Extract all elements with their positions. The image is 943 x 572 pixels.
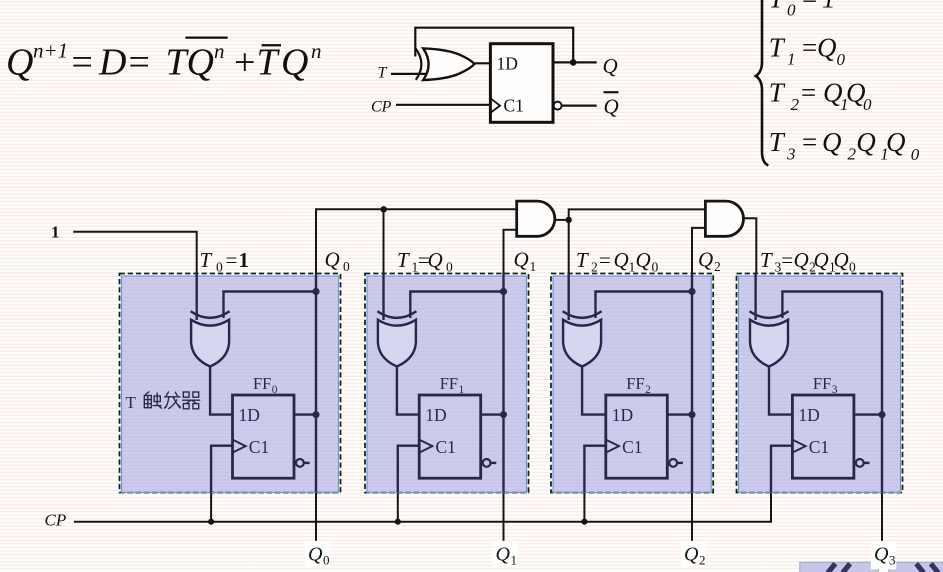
junction Q0 feedback	[312, 288, 319, 295]
wire CP input	[396, 104, 490, 106]
wire feedback Q2 to xor right input	[596, 292, 693, 319]
wire Q output	[553, 61, 597, 63]
svg-text:Q: Q	[636, 248, 651, 272]
svg-text:1D: 1D	[612, 405, 633, 425]
svg-text:D: D	[98, 42, 126, 84]
svg-text:T: T	[200, 248, 213, 272]
svg-text:Q: Q	[325, 248, 340, 272]
svg-text:0: 0	[863, 95, 872, 114]
svg-text:FF: FF	[813, 374, 831, 393]
wire 1 to T0 input	[73, 232, 197, 274]
junction Q2 output	[689, 411, 696, 418]
svg-text:+: +	[232, 42, 258, 84]
svg-text:C1: C1	[436, 437, 456, 457]
svg-text:FF: FF	[440, 374, 458, 393]
flip-flop FF2 rect	[606, 395, 668, 478]
wire Q1 vertical through box	[502, 274, 504, 493]
svg-text:T: T	[760, 248, 773, 272]
svg-text:Q: Q	[856, 127, 876, 157]
svg-text:1D: 1D	[798, 405, 819, 425]
bubble Qbar of FF1	[483, 459, 491, 467]
svg-text:1: 1	[787, 50, 796, 69]
wire Q2 below box to label	[691, 493, 693, 542]
svg-text:Q: Q	[874, 544, 889, 566]
wire Q1 below box to label	[503, 493, 505, 542]
wire T0 input inside box	[195, 274, 197, 321]
xor gate X0	[191, 311, 230, 318]
wire clock into FF0	[211, 446, 232, 493]
wire Qbar stub of FF3	[864, 462, 870, 464]
clock triangle of FF0	[233, 440, 246, 453]
svg-text:Q: Q	[614, 248, 629, 272]
svg-text:0: 0	[837, 50, 846, 69]
flip-flop FF0 rect	[233, 395, 295, 478]
wire FF0 clock drop below box	[210, 493, 212, 522]
svg-text:n+1: n+1	[33, 39, 68, 63]
junction Q1 feedback	[500, 288, 507, 295]
junction Q2 feedback	[688, 288, 695, 295]
junction dot on Q	[570, 59, 577, 66]
wire T input	[391, 73, 428, 75]
svg-text:T: T	[769, 127, 786, 157]
label hanzi chu (touch)	[144, 392, 161, 408]
wire Q2 output of FF2	[667, 413, 692, 415]
T flip-flop cell box FF0 (dashed)	[120, 274, 341, 493]
svg-text:Q: Q	[428, 248, 443, 272]
svg-text:=: =	[800, 127, 818, 157]
svg-text:0: 0	[849, 260, 856, 275]
wire Q1 up to AND gate A1 lower input	[504, 230, 517, 274]
junction Q3 output	[879, 411, 886, 418]
node label Q2 (bottom)	[681, 541, 707, 567]
svg-text:1: 1	[239, 248, 250, 272]
wire T1 drop from top line	[383, 209, 385, 273]
svg-text:Q: Q	[603, 54, 618, 78]
svg-text:0: 0	[787, 0, 796, 19]
svg-text:Q: Q	[794, 248, 809, 272]
nav button previous	[800, 562, 879, 572]
wire Q3 below box to label	[881, 493, 883, 542]
brace of equation system	[756, 0, 769, 166]
junction at A1 output	[566, 217, 572, 223]
junction on top line at T1 drop	[381, 206, 387, 212]
bubble Qbar of FF2	[669, 459, 677, 467]
flip-flop FF1 rect	[419, 395, 481, 478]
svg-text:Q: Q	[822, 127, 842, 157]
wire Qbar stub of FF1	[491, 462, 497, 464]
svg-text:Q: Q	[817, 33, 837, 63]
wire xor X3 output to 1D	[769, 367, 792, 415]
T flip-flop cell box FF1 (dashed)	[365, 274, 529, 493]
svg-text:2: 2	[791, 95, 800, 114]
T flip-flop cell box FF3 (dashed)	[737, 274, 903, 493]
wire Q0 below box to label	[315, 493, 317, 542]
junction Q0 output	[313, 411, 320, 418]
svg-text:=: =	[598, 248, 612, 272]
wire T2 input inside box	[568, 274, 570, 321]
svg-text:T: T	[769, 33, 786, 63]
svg-text:1D: 1D	[239, 405, 260, 425]
bubble Qbar of FF0	[296, 459, 304, 467]
svg-text:n: n	[311, 39, 322, 63]
node label Q1 (bottom)	[492, 541, 518, 567]
wire feedback Q3 to xor right input	[782, 292, 882, 319]
svg-text:CP: CP	[45, 511, 67, 530]
svg-text:Q: Q	[308, 544, 323, 566]
junction CP to FF2 clock	[581, 519, 587, 525]
xor gate G0 (input stage of top T flip-flop)	[416, 49, 422, 80]
flip-flop U0 (top demo D-FF)	[490, 44, 553, 123]
wire Q2 up to AND gate A2 lower input	[692, 228, 705, 274]
svg-text:Q: Q	[698, 248, 713, 272]
wire A2 output drops to T3	[744, 218, 757, 273]
svg-text:Q: Q	[886, 127, 906, 157]
svg-text:C1: C1	[249, 437, 269, 457]
svg-text:1D: 1D	[425, 405, 446, 425]
inverted output bubble	[554, 102, 562, 110]
wire Q1 output of FF1	[481, 413, 504, 415]
wire FF1 clock drop below box	[397, 493, 399, 522]
wire CP bus	[74, 493, 771, 522]
svg-text:CP: CP	[371, 99, 392, 116]
label hanzi fa (emit)	[165, 392, 181, 409]
svg-text:Q: Q	[514, 248, 529, 272]
bubble Qbar of FF3	[856, 459, 864, 467]
xor gate X2	[563, 311, 602, 318]
T flip-flop cell box FF2 (dashed)	[551, 274, 713, 493]
wire feedback Q to xor	[415, 28, 573, 63]
svg-text:3: 3	[832, 384, 838, 396]
and gate A2	[705, 201, 743, 236]
svg-text:2: 2	[714, 259, 721, 274]
svg-text:=: =	[800, 0, 818, 14]
xor gate X3	[750, 311, 789, 318]
svg-text:Q: Q	[814, 248, 829, 272]
svg-text:2: 2	[848, 145, 857, 164]
svg-text:T: T	[126, 393, 137, 412]
svg-text:T: T	[378, 65, 388, 82]
svg-text:3: 3	[786, 144, 796, 163]
wire Q3 output of FF3	[854, 413, 882, 415]
wire clock into FF1	[398, 446, 419, 493]
svg-text:3: 3	[889, 553, 896, 568]
xor gate X1	[377, 311, 416, 318]
clock triangle of FF1	[419, 440, 432, 453]
wire Q0 vertical through box	[315, 274, 317, 493]
wire feedback Q1 to xor right input	[410, 292, 503, 319]
svg-text:1: 1	[629, 260, 636, 275]
svg-text:n: n	[214, 39, 225, 63]
wire T1 input inside box	[382, 274, 384, 321]
wire Q0 output of FF0	[294, 413, 316, 415]
wire Qbar stub of FF0	[304, 462, 310, 464]
svg-text:Q: Q	[684, 544, 699, 566]
svg-text:C1: C1	[504, 96, 524, 116]
junction Q1 output	[500, 411, 507, 418]
svg-text:0: 0	[216, 260, 223, 275]
svg-text:=: =	[800, 33, 818, 63]
svg-text:FF: FF	[626, 374, 644, 393]
wire Qbar stub of FF2	[677, 462, 683, 464]
svg-text:FF: FF	[253, 374, 271, 393]
svg-text:T: T	[769, 0, 786, 14]
label hanzi qi (device)	[183, 392, 200, 409]
svg-text:=: =	[126, 42, 152, 84]
wire Q2 vertical through box	[691, 274, 693, 493]
wire Qbar output	[562, 104, 597, 106]
wire Q0 up and across to AND gate A1	[316, 209, 517, 273]
svg-text:0: 0	[323, 553, 330, 568]
svg-text:1: 1	[511, 553, 518, 568]
svg-text:1: 1	[822, 0, 836, 14]
svg-text:T: T	[769, 78, 786, 108]
junction CP to FF1 clock	[395, 519, 401, 525]
and gate A1	[517, 201, 555, 236]
svg-text:T: T	[257, 42, 281, 84]
svg-text:Q: Q	[6, 42, 33, 84]
node label Q3 (bottom)	[871, 541, 897, 570]
wire xor X1 output to 1D	[397, 367, 419, 415]
svg-text:Q: Q	[604, 95, 619, 119]
wire FF2 clock drop below box	[583, 493, 585, 522]
svg-text:C1: C1	[622, 437, 642, 457]
nav button next	[889, 562, 943, 572]
svg-text:Q: Q	[834, 248, 849, 272]
svg-text:Q: Q	[496, 544, 511, 566]
svg-text:2: 2	[699, 553, 706, 568]
svg-text:1D: 1D	[497, 54, 518, 74]
svg-text:=: =	[69, 42, 95, 84]
wire clock into FF2	[584, 446, 605, 493]
wire xor X0 output to 1D	[210, 367, 232, 415]
wire A1 output	[555, 219, 569, 221]
svg-text:T: T	[576, 248, 589, 272]
wire T3 input inside box	[754, 274, 756, 321]
wire A1 output rises and runs to AND gate A2, also drops to T2	[569, 209, 706, 273]
svg-text:0: 0	[446, 260, 453, 275]
equation Q^{n+1}=D=T(Qbar^n)+(Tbar)Q^n	[6, 37, 322, 84]
wire clock into FF3	[771, 446, 792, 493]
svg-text:0: 0	[911, 145, 920, 164]
wire Q3 vertical through box	[881, 292, 883, 493]
svg-text:Q: Q	[281, 42, 308, 84]
clock triangle of FF2	[606, 440, 619, 453]
svg-text:1: 1	[51, 223, 60, 242]
node label Q0 (bottom)	[305, 541, 331, 567]
wire xor X2 output to 1D	[582, 367, 606, 415]
clock triangle of FF3	[792, 440, 805, 453]
clock triangle of U0	[490, 98, 500, 113]
svg-text:0: 0	[272, 384, 278, 396]
wire feedback Q0 to xor right input	[224, 292, 317, 319]
svg-text:=: =	[226, 248, 238, 272]
svg-text:2: 2	[645, 384, 651, 396]
wire xor output to 1D	[474, 62, 490, 64]
svg-text:Q: Q	[187, 42, 214, 84]
junction CP to FF0 clock	[208, 519, 214, 525]
svg-text:=: =	[799, 78, 817, 108]
svg-text:1: 1	[459, 384, 465, 396]
svg-text:=: =	[780, 248, 794, 272]
svg-text:1: 1	[530, 259, 537, 274]
flip-flop FF3 rect	[792, 395, 854, 478]
svg-text:0: 0	[343, 259, 350, 274]
svg-text:T: T	[397, 248, 410, 272]
svg-text:C1: C1	[809, 437, 829, 457]
svg-text:0: 0	[652, 260, 659, 275]
